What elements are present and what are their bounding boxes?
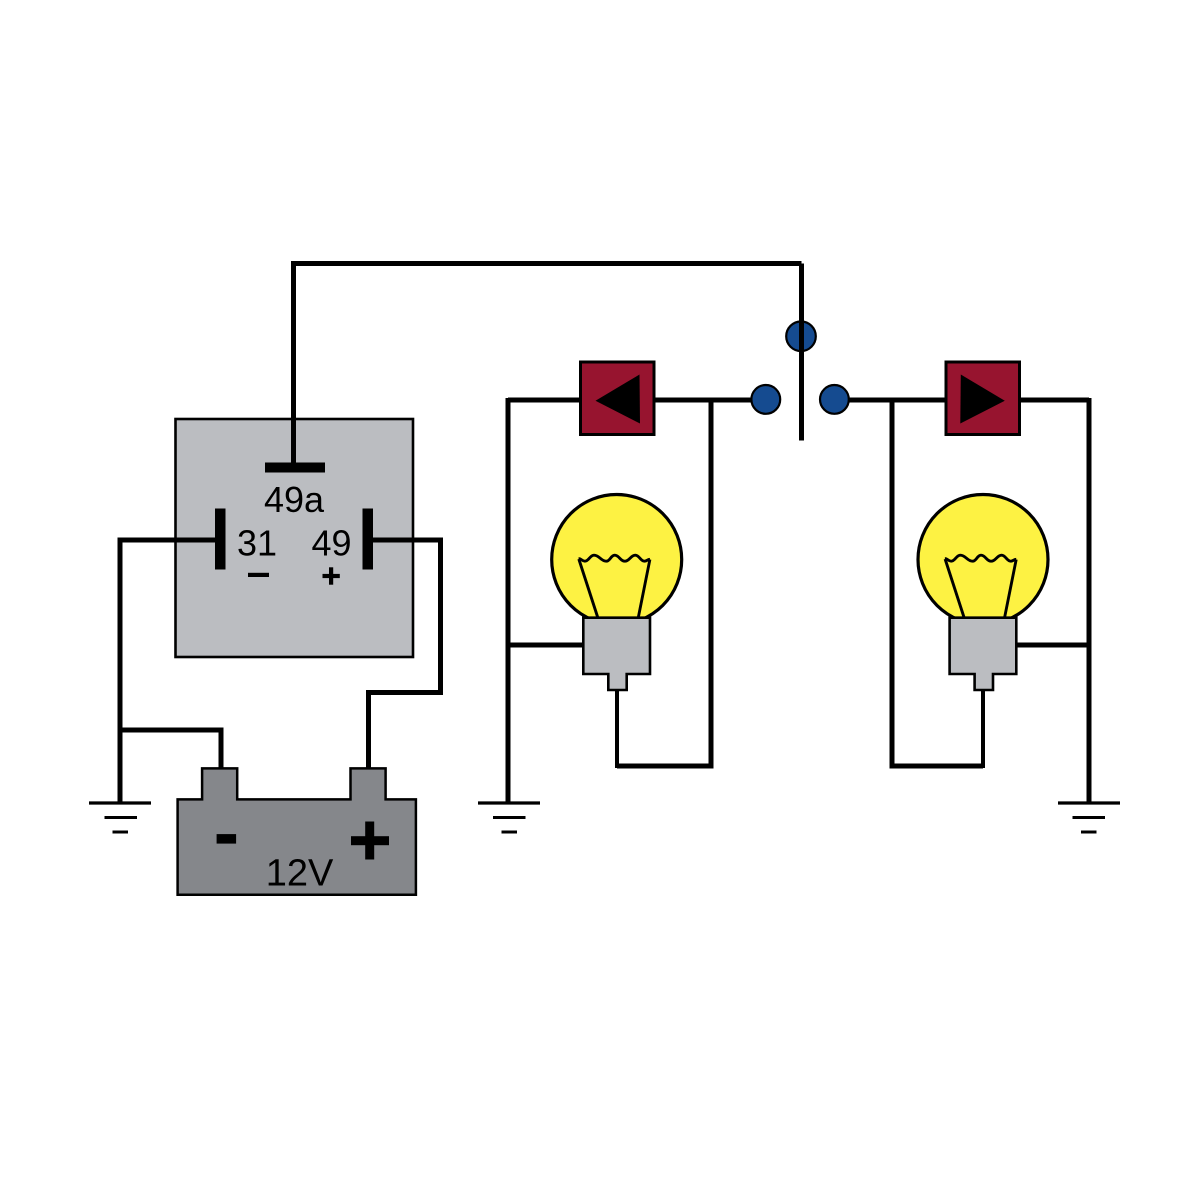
wire from left indicator to switch left contact <box>653 398 765 403</box>
indicator arrow right (dark red square) <box>946 362 1020 435</box>
lamp L2 filament right leg <box>1004 560 1016 619</box>
lamp L2 filament left leg <box>945 559 964 619</box>
wire from switch right contact to right indicator <box>835 398 947 403</box>
wire right stub down to lamp return <box>890 400 895 769</box>
lamp L2 glass (right bulb) <box>918 495 1048 625</box>
wire right lamp base feed <box>1016 643 1089 648</box>
lamp L1 filament <box>579 555 650 561</box>
minus sign under 31 <box>248 573 269 577</box>
switch contact dot right <box>820 385 849 414</box>
wire y=400 from left loop to left indicator <box>508 398 582 403</box>
wire right lamp bottom return <box>890 764 984 769</box>
svg-text:49: 49 <box>311 523 351 564</box>
ground G1 (battery side) <box>89 801 151 804</box>
wire right lamp loop vertical <box>1087 398 1092 802</box>
lamp L2 filament <box>945 555 1016 561</box>
switch lever wire <box>799 264 804 441</box>
svg-text:31: 31 <box>237 523 277 564</box>
terminal 31 bar <box>215 509 226 570</box>
wire right lamp tab lead <box>981 688 985 768</box>
plus sign under 49 <box>323 574 340 578</box>
wire top feed from relay 49a to switch lever <box>294 264 802 468</box>
lamp L1 socket base <box>583 618 650 690</box>
svg-text:12V: 12V <box>266 853 334 895</box>
ground G3 (right lamp) <box>1058 801 1120 804</box>
switch pivot dot on lever <box>786 322 816 352</box>
terminal 49a bar <box>265 463 325 473</box>
wire left stub down to lamp return <box>709 400 714 769</box>
battery plus mark <box>351 836 389 845</box>
wire left lamp bottom return <box>617 764 714 769</box>
wire left lamp loop vertical <box>506 398 511 802</box>
lamp L1 glass (left bulb) <box>552 495 682 625</box>
svg-text:49a: 49a <box>264 479 325 520</box>
indicator arrow left (dark red square) <box>581 362 655 435</box>
wire left lamp tab lead <box>615 688 619 768</box>
flasher relay K1 body <box>176 419 414 657</box>
terminal 49 bar <box>363 509 374 570</box>
wire from terminal 31 to ground and battery minus <box>120 540 216 802</box>
wire from right indicator to right loop <box>1018 398 1089 403</box>
wire branch to battery minus terminal <box>120 730 221 772</box>
wire from terminal 49 to battery plus terminal <box>369 540 441 772</box>
ground G2 (left lamp) <box>478 801 540 804</box>
wire left lamp base feed <box>508 643 584 648</box>
battery B1 body <box>178 768 416 894</box>
battery minus mark <box>217 834 237 844</box>
lamp L1 filament right leg <box>638 560 650 619</box>
lamp L1 filament left leg <box>579 559 598 619</box>
lamp L2 socket base <box>950 618 1017 690</box>
switch contact dot left <box>751 385 780 414</box>
left arrow triangle <box>596 375 641 424</box>
right arrow triangle <box>960 375 1005 424</box>
